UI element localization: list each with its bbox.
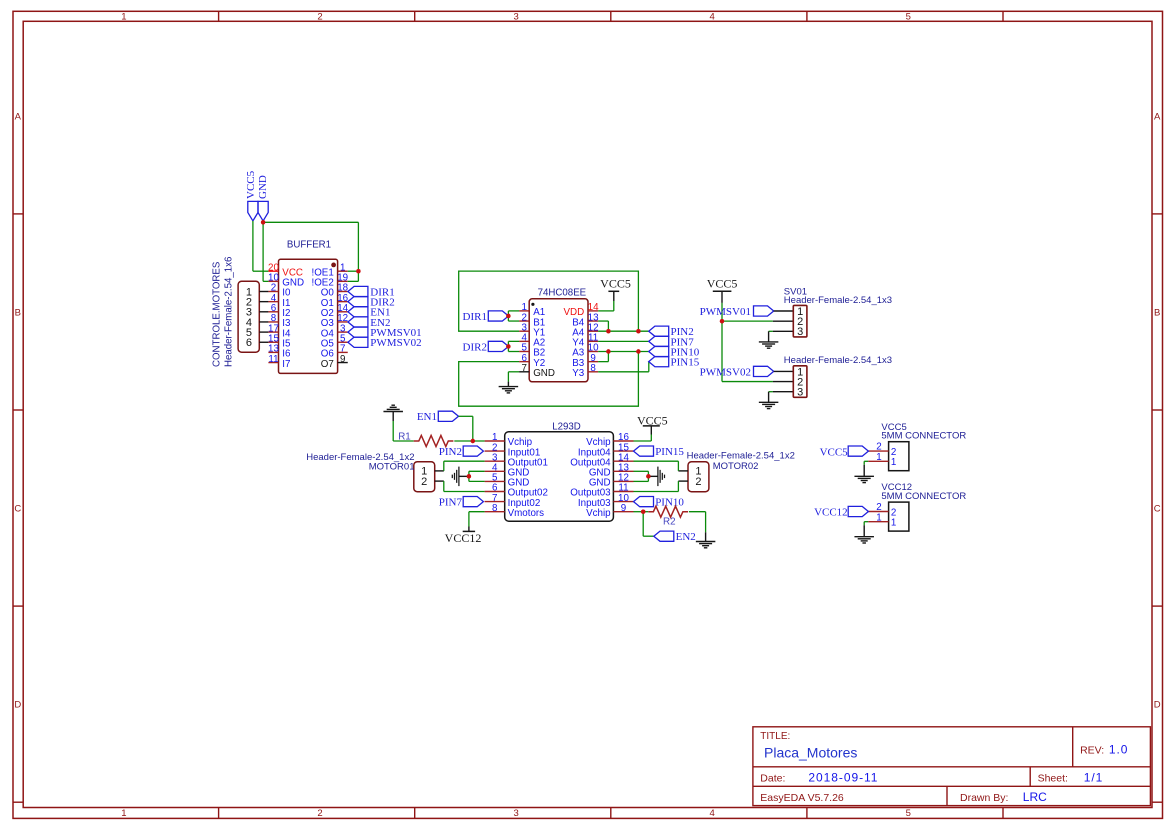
- svg-text:PWMSV01: PWMSV01: [700, 306, 751, 318]
- wire pin 11 Y4 to PIN7 flag: [598, 340, 648, 342]
- ground (flipped) at R1: [383, 405, 403, 421]
- svg-text:Header-Female-2.54_1x6: Header-Female-2.54_1x6: [224, 257, 235, 367]
- net flag DIR1 at 74HC08EE: [463, 311, 509, 323]
- wire to EN2 flag: [643, 512, 654, 537]
- svg-text:MOTOR02: MOTOR02: [713, 461, 759, 472]
- net flag PWMSV02: [700, 366, 774, 378]
- wire R2 to ground: [689, 512, 706, 533]
- junction Y2/PIN10: [636, 349, 640, 353]
- title block Drawn By LRC: [960, 790, 1047, 804]
- svg-text:DIR2: DIR2: [463, 341, 487, 353]
- svg-text:Date:: Date:: [760, 772, 785, 784]
- svg-text:L293D: L293D: [552, 422, 581, 433]
- wire PWMSV02 to header pin 1: [774, 370, 794, 372]
- value label R2: [663, 516, 676, 527]
- svg-text:7: 7: [521, 363, 526, 374]
- ground (rotated) right of L293D: [648, 467, 664, 487]
- svg-text:Vmotors: Vmotors: [508, 508, 545, 519]
- wire VCC5 pin 1 to ground: [864, 461, 868, 465]
- svg-text:2: 2: [317, 808, 322, 819]
- wire SV01 pin 3 to ground: [769, 330, 794, 332]
- svg-text:Y3: Y3: [572, 368, 585, 379]
- label SV01: [784, 286, 807, 297]
- net flag PIN7 at 74HC08EE: [649, 336, 695, 348]
- wire VCC5 to pin 14 VDD: [598, 301, 614, 311]
- wire DIR1 to pins A1,B1: [508, 311, 519, 321]
- net flag PWMSV01 at BUFFER1: [348, 327, 422, 339]
- junction PWMSV net branch: [720, 319, 724, 323]
- svg-text:Header-Female-2.54_1x3: Header-Female-2.54_1x3: [784, 355, 892, 366]
- svg-text:VCC5: VCC5: [707, 277, 738, 291]
- label 74HC08EE: [538, 287, 587, 298]
- svg-text:1: 1: [121, 12, 126, 23]
- net flag PIN7 at L293D: [439, 497, 484, 509]
- junction dots overlay: [261, 220, 724, 514]
- svg-text:PIN15: PIN15: [655, 446, 684, 458]
- label 5MM CONNECTOR (VCC5): [881, 431, 966, 442]
- label MOTOR02: [713, 461, 759, 472]
- wire VCC5 to pin 16: [634, 435, 652, 442]
- net flag PWMSV02 at BUFFER1: [348, 337, 422, 349]
- wire pin 13 B4 join: [598, 321, 608, 331]
- svg-text:1: 1: [121, 808, 126, 819]
- label BUFFER1: [287, 239, 331, 250]
- net flag PIN15 at 74HC08EE: [649, 357, 700, 369]
- svg-text:4: 4: [710, 808, 715, 819]
- connector MOTOR02 Header-Female-2.54_1x2: [678, 462, 709, 492]
- label VCC12 (5MM connector): [881, 482, 912, 493]
- net flag EN2 at BUFFER1: [348, 317, 391, 329]
- label Header-Female-2.54_1x3 (second): [784, 355, 892, 366]
- connector Header-Female-2.54_1x3 (second): [793, 366, 807, 399]
- junction B4: [606, 329, 610, 333]
- wire GND net to BUFFER1 pins 1 and 19: [263, 222, 358, 281]
- ground at second header: [759, 392, 779, 409]
- label L293D: [552, 422, 581, 433]
- svg-text:Vchip: Vchip: [586, 508, 611, 519]
- value label R1: [398, 431, 411, 442]
- label VCC5 (5MM connector): [881, 422, 906, 433]
- wire Output02 to MOTOR01 pin 2: [444, 481, 485, 491]
- wire L293D pins 4,5 GND tie: [469, 471, 485, 481]
- svg-text:3: 3: [513, 12, 518, 23]
- label 5MM CONNECTOR (VCC12): [881, 491, 966, 502]
- svg-text:R2: R2: [663, 516, 676, 527]
- svg-text:EN2: EN2: [676, 531, 696, 543]
- title block frame: [753, 727, 1151, 806]
- title block EasyEDA version: [760, 792, 844, 804]
- svg-text:TITLE:: TITLE:: [760, 731, 790, 742]
- resistor R2: [648, 506, 688, 517]
- net flag PIN2 at 74HC08EE: [649, 326, 694, 338]
- power VCC5 above 74HC08EE pin 14: [600, 277, 631, 301]
- svg-text:8: 8: [590, 363, 596, 374]
- net flag VCC5 at 5MM connector: [820, 446, 869, 458]
- svg-text:3: 3: [797, 387, 803, 399]
- wire pin 9 B3 join: [598, 352, 608, 362]
- svg-text:O7: O7: [321, 359, 334, 370]
- net flag EN1: [417, 411, 459, 423]
- IC 74HC08EE (quad AND gate, pins A1-Y3/VDD/GND): [519, 299, 599, 382]
- net flag EN2: [654, 531, 696, 543]
- svg-text:Sheet:: Sheet:: [1038, 772, 1068, 784]
- svg-text:PIN10: PIN10: [655, 497, 684, 509]
- svg-text:5MM CONNECTOR: 5MM CONNECTOR: [881, 431, 966, 442]
- power VCC5 at L293D pin 16: [637, 413, 668, 434]
- junction DIR1 tie: [506, 314, 510, 318]
- svg-text:8: 8: [492, 503, 498, 514]
- wire Vmotors down: [469, 512, 485, 527]
- net flag PIN2 at L293D: [439, 446, 484, 458]
- title Placa_Motores: [764, 744, 857, 760]
- label Header-Female-2.54_1x2 (MOTOR02): [687, 451, 795, 462]
- wire pin 7 GND down: [508, 372, 519, 382]
- svg-text:74HC08EE: 74HC08EE: [538, 287, 587, 298]
- wire pin 9 to R2: [634, 511, 649, 513]
- svg-text:VCC12: VCC12: [445, 531, 482, 545]
- label Header-Female-2.54_1x2 (MOTOR01): [306, 452, 414, 463]
- ground at SV01: [759, 331, 779, 348]
- title block REV 1.0: [1080, 743, 1128, 757]
- title block TITLE: label: [760, 731, 790, 742]
- svg-text:A: A: [15, 112, 22, 123]
- wire pin 10 A3 to PIN10 flag: [598, 351, 648, 353]
- svg-text:BUFFER1: BUFFER1: [287, 239, 331, 250]
- label CONTROLE.MOTORES (rotated): [212, 261, 223, 367]
- wire R1 to L293D pin 1: [454, 440, 484, 442]
- svg-text:C: C: [1154, 504, 1161, 515]
- wire GND flag down to BUFFER1 pin 10: [263, 221, 268, 281]
- svg-text:R1: R1: [398, 431, 411, 442]
- ground at VCC5 connector: [854, 465, 874, 483]
- net flag VCC12 at 5MM connector: [814, 506, 868, 518]
- svg-text:2: 2: [421, 476, 427, 488]
- svg-text:I7: I7: [282, 359, 290, 370]
- svg-text:9: 9: [340, 354, 345, 365]
- title block Date 2018-09-11: [760, 770, 878, 784]
- net flag PWMSV01: [700, 306, 774, 318]
- svg-text:5: 5: [906, 12, 911, 23]
- wire PWMSV01 to SV01 pin 1: [774, 310, 794, 312]
- junction at BUFFER1 pin 1: [356, 269, 360, 273]
- svg-text:Placa_Motores: Placa_Motores: [764, 744, 857, 760]
- net flag PIN10 at 74HC08EE: [649, 346, 700, 358]
- net flag VCC5 (rotated, above BUFFER1): [245, 170, 258, 221]
- svg-text:VCC5: VCC5: [820, 446, 849, 458]
- svg-text:3: 3: [797, 326, 803, 338]
- net flag EN1 at BUFFER1: [348, 307, 391, 319]
- net flag DIR1 at BUFFER1: [348, 286, 395, 298]
- wire VCC5 to SV01 pin 2: [722, 320, 793, 322]
- svg-text:2018-09-11: 2018-09-11: [808, 770, 878, 784]
- connector CONTROLE.MOTORES Header-Female-2.54_1x6 (pins 1-6): [238, 281, 268, 352]
- net flag DIR2 at 74HC08EE: [463, 341, 509, 353]
- junction EN1/R1/pin1: [471, 439, 475, 443]
- svg-text:EN1: EN1: [417, 411, 437, 423]
- ground (rotated) left of L293D: [452, 467, 469, 487]
- svg-text:GND: GND: [257, 175, 269, 199]
- connector VCC12 5MM CONNECTOR: [868, 502, 909, 531]
- svg-text:VCC5: VCC5: [600, 277, 631, 291]
- svg-text:C: C: [14, 504, 21, 515]
- junction right GND: [646, 474, 650, 478]
- label Header-Female-2.54_1x3 (SV01): [784, 295, 892, 306]
- net flag PIN10 at L293D: [634, 497, 685, 509]
- wire Output01 to MOTOR01 pin 1: [444, 461, 485, 471]
- ground below 74HC08EE: [499, 382, 519, 393]
- connector VCC5 5MM CONNECTOR: [868, 442, 909, 471]
- svg-text:D: D: [14, 700, 21, 711]
- svg-text:9: 9: [621, 503, 626, 514]
- svg-text:VCC5: VCC5: [245, 170, 257, 199]
- svg-text:2: 2: [317, 12, 322, 23]
- wire Output04 to MOTOR02 pin 1: [634, 461, 679, 471]
- IC U BUFFER1 (20-pin buffer, VCC/GND/I0-I7, !OE1/!OE2/O0-O7): [268, 259, 349, 373]
- wire Y2 loop to A3/B3 (PIN10 net): [459, 352, 639, 407]
- svg-text:B: B: [1154, 308, 1160, 319]
- svg-text:PIN2: PIN2: [439, 446, 462, 458]
- svg-text:DIR1: DIR1: [463, 311, 487, 323]
- junction left GND: [467, 474, 471, 478]
- svg-text:EasyEDA V5.7.26: EasyEDA V5.7.26: [760, 792, 844, 804]
- junction B3: [606, 349, 610, 353]
- svg-text:PWMSV02: PWMSV02: [370, 337, 421, 349]
- svg-text:A: A: [1154, 112, 1161, 123]
- wire pin 8 Y3 up to PIN15 flag: [598, 362, 649, 372]
- svg-text:GND: GND: [533, 368, 555, 379]
- svg-text:1/1: 1/1: [1084, 770, 1103, 784]
- svg-text:1: 1: [891, 518, 896, 529]
- wire VCC12 pin 1 to ground: [864, 522, 868, 526]
- wire VCC5 flag to BUFFER1 pin 20: [253, 221, 269, 271]
- connector SV01 Header-Female-2.54_1x3: [793, 305, 807, 338]
- svg-text:3: 3: [513, 808, 518, 819]
- svg-text:Header-Female-2.54_1x3: Header-Female-2.54_1x3: [784, 295, 892, 306]
- svg-text:LRC: LRC: [1023, 790, 1047, 804]
- resistor R1: [414, 436, 454, 447]
- svg-text:11: 11: [268, 354, 278, 365]
- label Header-Female-2.54_1x6 (rotated): [224, 257, 235, 367]
- wire Y1 loop to A4/B4 (PIN2 net): [459, 271, 639, 331]
- svg-text:1: 1: [876, 452, 881, 463]
- svg-text:5MM CONNECTOR: 5MM CONNECTOR: [881, 491, 966, 502]
- ground at R2: [696, 532, 716, 548]
- svg-text:REV:: REV:: [1080, 745, 1104, 757]
- svg-text:B: B: [15, 308, 21, 319]
- junction at GND flag: [261, 220, 265, 224]
- net flag GND (rotated, above BUFFER1): [257, 175, 269, 221]
- wire EN1 to L293D pin 1: [459, 416, 473, 441]
- power VCC12 below Vmotors: [445, 527, 482, 545]
- junction pin9/R2/EN2: [641, 510, 645, 514]
- svg-text:4: 4: [710, 12, 715, 23]
- title block Sheet 1/1: [1038, 770, 1104, 784]
- svg-text:6: 6: [246, 337, 252, 349]
- wire pin 12 A4 to PIN2 flag: [598, 330, 648, 332]
- wire header pin 3 to ground: [769, 391, 794, 393]
- wire DIR2 to pins A2,B2: [508, 341, 519, 351]
- svg-text:CONTROLE.MOTORES: CONTROLE.MOTORES: [212, 261, 223, 367]
- IC L293D (motor driver, 16 pins): [485, 432, 634, 522]
- wire ground to R1: [393, 421, 414, 441]
- wire Output03 to MOTOR02 pin 2: [634, 481, 679, 491]
- svg-text:VCC12: VCC12: [814, 507, 848, 519]
- svg-text:1: 1: [891, 457, 896, 468]
- junction DIR2 tie: [506, 344, 510, 348]
- svg-text:PWMSV02: PWMSV02: [700, 366, 751, 378]
- connector MOTOR01 Header-Female-2.54_1x2: [414, 462, 444, 492]
- wire VCC5 to header pin 2: [722, 381, 793, 383]
- net flag DIR2 at BUFFER1: [348, 297, 395, 309]
- ground at VCC12 connector: [854, 525, 874, 543]
- label MOTOR01: [369, 462, 415, 473]
- svg-text:1.0: 1.0: [1109, 743, 1128, 757]
- svg-text:D: D: [1154, 700, 1161, 711]
- wire L293D pins 13,12 GND tie: [634, 471, 649, 481]
- power VCC5 above SV01: [707, 277, 738, 303]
- svg-text:PIN7: PIN7: [439, 497, 463, 509]
- svg-text:MOTOR01: MOTOR01: [369, 462, 415, 473]
- svg-text:PIN15: PIN15: [671, 357, 700, 369]
- svg-text:Drawn By:: Drawn By:: [960, 792, 1008, 804]
- svg-text:1: 1: [876, 512, 881, 523]
- junction Y1/PIN2: [636, 329, 640, 333]
- net flag PIN15 at L293D: [634, 446, 685, 458]
- wire VCC5 down to headers: [721, 303, 723, 382]
- svg-text:5: 5: [906, 808, 911, 819]
- svg-text:2: 2: [695, 476, 701, 488]
- svg-text:Header-Female-2.54_1x2: Header-Female-2.54_1x2: [687, 451, 795, 462]
